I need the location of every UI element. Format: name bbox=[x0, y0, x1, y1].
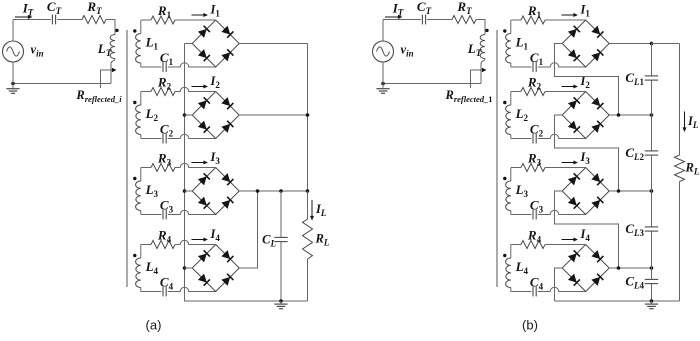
bridge rectifier b4 diode top-right bbox=[591, 250, 603, 262]
bridge rectifier b3 diode bottom-right bbox=[591, 197, 603, 209]
resistor R1 (b) bbox=[521, 16, 545, 24]
label C4 (a) bbox=[160, 275, 174, 292]
bridge rectifier a2 diamond bbox=[192, 92, 239, 139]
label C2 (a) bbox=[160, 122, 174, 139]
resistor R_T (a) bbox=[82, 16, 106, 24]
node CL bus b1 bbox=[650, 42, 654, 46]
wire C_T to R_T (a) bbox=[57, 19, 82, 21]
label v_in (a) bbox=[31, 43, 44, 59]
node CL bus b2 bbox=[650, 113, 654, 117]
node CL bus b4 bbox=[650, 266, 654, 270]
capacitor C_L1 (b) bbox=[645, 76, 658, 80]
wire C1 to bridge with hop (b) bbox=[538, 63, 586, 67]
wire C_L branch bottom (a) bbox=[280, 242, 282, 301]
bridge rectifier b4 diode left-bottom bbox=[568, 274, 580, 286]
bridge rectifier a3 diode top-right bbox=[221, 173, 233, 185]
arrow I3 (b) bbox=[562, 161, 579, 165]
resistor R_T (b) bbox=[452, 16, 476, 24]
label R_T (b) bbox=[456, 0, 472, 16]
bridge rectifier b3 diamond bbox=[562, 168, 609, 215]
label I_T (b) bbox=[392, 0, 404, 17]
node ground rail (a) bbox=[279, 299, 283, 303]
top rail to R_L (b) bbox=[652, 43, 680, 45]
bridge rectifier a4 diode top-right bbox=[221, 250, 233, 262]
label I1 (a) bbox=[210, 3, 221, 19]
wire L2 bottom to C2 (a) bbox=[141, 138, 162, 140]
wire C4 to bridge with hop (b) bbox=[538, 287, 586, 291]
node bus-bridge a2 left bbox=[183, 113, 187, 117]
capacitor C1 (b) bbox=[533, 62, 536, 72]
arrow R_reflected (a) bbox=[101, 68, 117, 88]
node bus-bridge a3 left bbox=[183, 189, 187, 193]
wire R_T to corner (a) bbox=[106, 20, 115, 35]
label I4 (a) bbox=[210, 227, 221, 243]
wire L4 top (a) bbox=[141, 244, 151, 246]
arrow I2 (b) bbox=[562, 85, 579, 89]
resistor R3 (a) bbox=[151, 164, 175, 172]
arrow I_T (b) bbox=[385, 15, 403, 19]
label I_L (a) bbox=[315, 202, 327, 218]
wire bridge a4 left to bus bbox=[185, 267, 193, 269]
label I3 (a) bbox=[210, 150, 221, 166]
wire L3 bottom to C3 (b) bbox=[511, 214, 532, 216]
bridge rectifier b2 diode top-right bbox=[591, 97, 603, 109]
bottom rail (b) bbox=[555, 300, 680, 302]
bridge rectifier a4 diode bottom-right bbox=[221, 274, 233, 286]
wire L3 top (a) bbox=[141, 167, 151, 169]
label R_L (a) bbox=[315, 232, 330, 248]
label R_reflected (b) bbox=[444, 88, 492, 104]
node bus-bridge a4 left bbox=[183, 266, 187, 270]
label C3 (a) bbox=[160, 198, 174, 215]
wire bridge a2 right to right bus bbox=[239, 114, 307, 116]
voltage source v_in (a) bbox=[3, 41, 24, 62]
wire C1 to bridge with hop (a) bbox=[168, 63, 216, 67]
label R_L (b) bbox=[685, 161, 700, 177]
polarity dot L3 (a) bbox=[133, 177, 136, 180]
capacitor C_L3 (b) bbox=[645, 227, 658, 231]
bridge rectifier b4 diode bottom-right bbox=[591, 274, 603, 286]
inductor L2 (a) bbox=[136, 92, 141, 139]
wire R2 to bridge with hop (a) bbox=[175, 87, 216, 91]
wire R4 to bridge (b) bbox=[545, 244, 586, 246]
polarity dot L4 (a) bbox=[133, 254, 136, 257]
polarity dot L_T (b) bbox=[485, 29, 488, 32]
wire R1 to bridge (b) bbox=[545, 19, 586, 21]
bridge rectifier b1 diamond bbox=[562, 20, 609, 67]
polarity dot L1 (a) bbox=[133, 29, 136, 32]
bridge rectifier a3 diode left-bottom bbox=[198, 197, 210, 209]
bridge rectifier b2 diode left-top bbox=[568, 97, 580, 109]
wire source bottom (b) bbox=[382, 62, 384, 84]
R_L bus bottom (b) bbox=[679, 182, 681, 302]
label C3 (b) bbox=[530, 198, 544, 215]
arrow I4 (a) bbox=[192, 238, 209, 242]
label L3 (b) bbox=[515, 182, 529, 199]
label I4 (b) bbox=[580, 227, 591, 243]
bridge rectifier b3 diode left-bottom bbox=[568, 197, 580, 209]
wire L1 bottom to C1 (a) bbox=[141, 66, 162, 68]
svg-text:(a): (a) bbox=[146, 318, 162, 333]
wire bridge b2 right rail bbox=[609, 114, 651, 116]
ground RX (a) bbox=[274, 301, 287, 309]
capacitor C2 (a) bbox=[163, 134, 166, 144]
node source bottom (b) bbox=[381, 82, 385, 86]
label C_T (b) bbox=[417, 0, 432, 16]
wire bridge a2 left to bus bbox=[185, 114, 193, 116]
label C_T (a) bbox=[47, 0, 62, 16]
wire top to C_T (a) bbox=[13, 19, 51, 21]
wire R2 to bridge (b) bbox=[545, 91, 586, 93]
wire L3 bottom to C3 (a) bbox=[141, 214, 162, 216]
wire L1 bottom to C1 (b) bbox=[511, 66, 532, 68]
bridge rectifier a2 diode left-bottom bbox=[198, 121, 210, 133]
capacitor C3 (a) bbox=[163, 210, 166, 220]
wire source bottom (a) bbox=[12, 62, 14, 84]
polarity dot L1 (b) bbox=[503, 29, 506, 32]
bridge rectifier b2 diamond bbox=[562, 92, 609, 139]
inductor L3 (a) bbox=[136, 168, 141, 215]
label I2 (b) bbox=[580, 74, 591, 90]
wire L_T down with jog (a) bbox=[111, 59, 115, 84]
label R4 (b) bbox=[527, 228, 542, 245]
output rail (a) bbox=[239, 190, 307, 192]
label C_L2 (b) bbox=[625, 145, 644, 162]
label L_T (a) bbox=[97, 41, 113, 59]
node source bottom (a) bbox=[11, 82, 15, 86]
wire R4 to bridge with hop (a) bbox=[175, 240, 216, 244]
wire C2 to bridge with hop (b) bbox=[538, 134, 586, 138]
label R1 (a) bbox=[157, 3, 172, 20]
wire L4 top (b) bbox=[511, 244, 521, 246]
capacitor C_T (a) bbox=[52, 15, 55, 25]
bridge rectifier a1 diode bottom-right bbox=[221, 49, 233, 61]
voltage source v_in (b) bbox=[373, 41, 394, 62]
label R_reflected (a) bbox=[75, 88, 122, 104]
wire R_L top (a) bbox=[307, 191, 309, 219]
bridge rectifier a1 diode top-right bbox=[221, 26, 233, 38]
label L2 (a) bbox=[145, 106, 159, 123]
wire bottom rail (b) bbox=[383, 83, 481, 85]
node right bus a2 bbox=[306, 113, 310, 117]
label R1 (b) bbox=[527, 3, 542, 20]
label C_L4 (b) bbox=[625, 274, 644, 291]
label C1 (b) bbox=[530, 50, 544, 67]
wire R_L bottom (a) bbox=[307, 259, 309, 301]
polarity dot L2 (a) bbox=[133, 101, 136, 104]
right DC bus (a) bbox=[307, 44, 309, 192]
label v_in (b) bbox=[401, 43, 414, 59]
node loop join b2 bbox=[617, 113, 621, 117]
wire bridge b1 left loop bbox=[555, 44, 619, 116]
arrow R_reflected (b) bbox=[471, 68, 487, 88]
wire C3 to bridge with hop (a) bbox=[168, 210, 216, 214]
bridge rectifier a2 diode bottom-right bbox=[221, 121, 233, 133]
wire C4 to bridge with hop (a) bbox=[168, 287, 216, 291]
bridge rectifier a1 diode left-top bbox=[198, 26, 210, 38]
label I3 (b) bbox=[580, 150, 591, 166]
bridge rectifier b2 diode bottom-right bbox=[591, 121, 603, 133]
label I_L (b) bbox=[687, 114, 699, 130]
label L2 (b) bbox=[515, 106, 529, 123]
node ground rail (b) bbox=[650, 299, 654, 303]
wire bridge b3 left loop bbox=[555, 191, 619, 268]
label R_T (a) bbox=[86, 0, 102, 16]
label I1 (b) bbox=[580, 3, 591, 19]
node rail riser a4 bbox=[256, 189, 260, 193]
capacitor C_T (b) bbox=[422, 15, 425, 25]
ground TX (b) bbox=[376, 84, 389, 94]
label L1 (b) bbox=[515, 35, 529, 52]
arrow I_T (a) bbox=[15, 15, 33, 19]
wire bridge b1 right rail bbox=[609, 43, 651, 45]
resistor R2 (a) bbox=[151, 88, 175, 96]
inductor L1 (a) bbox=[136, 20, 141, 67]
arrow I2 (a) bbox=[192, 85, 209, 89]
bridge rectifier a2 diode top-right bbox=[221, 97, 233, 109]
inductor L_T (b) bbox=[480, 35, 485, 59]
wire source top (a) bbox=[12, 20, 14, 42]
arrow I_L (b) bbox=[683, 112, 687, 133]
wire L1 top (a) bbox=[141, 19, 151, 21]
wire L2 top (b) bbox=[511, 91, 521, 93]
label C_L1 (b) bbox=[625, 70, 644, 87]
wire bridge a1 left to bus bbox=[185, 43, 193, 45]
resistor R2 (b) bbox=[521, 88, 545, 96]
resistor R_L (b) bbox=[675, 155, 685, 182]
wire bridge a4 right riser bbox=[239, 191, 257, 268]
CL bus segment 5 (b) bbox=[651, 284, 653, 301]
bridge rectifier b2 diode left-bottom bbox=[568, 121, 580, 133]
label I2 (a) bbox=[210, 74, 221, 90]
arrow I4 (b) bbox=[562, 238, 579, 242]
polarity dot L_T (a) bbox=[115, 29, 118, 32]
wire L4 bottom to C4 (a) bbox=[141, 291, 162, 293]
bridge rectifier a3 diode left-top bbox=[198, 173, 210, 185]
wire bridge a3 left to bus bbox=[185, 190, 193, 192]
wire bridge b3 right rail bbox=[609, 190, 651, 192]
wire R3 to bridge (b) bbox=[545, 167, 586, 169]
label R4 (a) bbox=[157, 228, 172, 245]
bridge rectifier b1 diode top-right bbox=[591, 26, 603, 38]
ground TX (a) bbox=[6, 84, 19, 94]
wire bridge b2 left loop bbox=[555, 115, 619, 191]
svg-text:(b): (b) bbox=[522, 318, 538, 333]
bridge rectifier a1 diode left-bottom bbox=[198, 49, 210, 61]
inductor L4 (a) bbox=[136, 245, 141, 292]
bridge rectifier b1 diode left-bottom bbox=[568, 49, 580, 61]
capacitor C1 (a) bbox=[163, 62, 166, 72]
wire C_T to R_T (b) bbox=[427, 19, 452, 21]
bridge rectifier b1 diode bottom-right bbox=[591, 49, 603, 61]
wire source top (b) bbox=[382, 20, 384, 42]
label L3 (a) bbox=[145, 182, 159, 199]
CL bus segment 4 (b) bbox=[651, 231, 653, 279]
wire top to C_T (b) bbox=[383, 19, 421, 21]
wire L2 bottom to C2 (b) bbox=[511, 138, 532, 140]
resistor R4 (b) bbox=[521, 241, 545, 249]
ground RX (b) bbox=[645, 301, 658, 309]
arrow I3 (a) bbox=[192, 161, 209, 165]
capacitor C2 (b) bbox=[533, 134, 536, 144]
wire L1 top (b) bbox=[511, 19, 521, 21]
wire R1 to bridge (a) bbox=[175, 19, 216, 21]
capacitor C4 (a) bbox=[163, 287, 166, 297]
bridge rectifier b3 diode top-right bbox=[591, 173, 603, 185]
wire L3 top (b) bbox=[511, 167, 521, 169]
bridge rectifier b4 diamond bbox=[562, 245, 609, 292]
CL bus segment 1 (b) bbox=[651, 44, 653, 76]
coupling bar (b) bbox=[496, 30, 498, 287]
label C4 (b) bbox=[530, 275, 544, 292]
capacitor C3 (b) bbox=[533, 210, 536, 220]
label I_T (a) bbox=[22, 0, 34, 17]
CL bus segment 3 (b) bbox=[651, 155, 653, 227]
inductor L1 (b) bbox=[506, 20, 511, 67]
label R2 (b) bbox=[527, 75, 542, 92]
polarity dot L3 (b) bbox=[503, 177, 506, 180]
wire R3 to bridge with hop (a) bbox=[175, 163, 216, 167]
resistor R1 (a) bbox=[151, 16, 175, 24]
label C_L (a) bbox=[262, 233, 276, 249]
label C_L3 (b) bbox=[625, 221, 644, 238]
node rail C_L top bbox=[279, 189, 283, 193]
arrow I1 (b) bbox=[562, 13, 579, 17]
polarity dot L4 (b) bbox=[503, 254, 506, 257]
left DC bus (a) bbox=[185, 44, 308, 302]
wire L_T down with jog (b) bbox=[481, 59, 485, 84]
wire L2 top (a) bbox=[141, 91, 151, 93]
wire bridge b4 left loop bbox=[555, 268, 563, 301]
wire C2 to bridge with hop (a) bbox=[168, 134, 216, 138]
bridge rectifier a4 diamond bbox=[192, 245, 239, 292]
label L1 (a) bbox=[145, 35, 159, 52]
bridge rectifier a3 diamond bbox=[192, 168, 239, 215]
bridge rectifier a1 diamond bbox=[192, 20, 239, 67]
node loop join b4 bbox=[617, 266, 621, 270]
polarity dot L2 (b) bbox=[503, 101, 506, 104]
wire C3 to bridge with hop (b) bbox=[538, 210, 586, 214]
resistor R4 (a) bbox=[151, 241, 175, 249]
bridge rectifier b1 diode left-top bbox=[568, 26, 580, 38]
arrow I_L (a) bbox=[310, 200, 314, 221]
node rail R_L top bbox=[306, 189, 310, 193]
label L4 (b) bbox=[515, 259, 529, 276]
bridge rectifier a2 diode left-top bbox=[198, 97, 210, 109]
capacitor C_L2 (b) bbox=[645, 151, 658, 155]
bridge rectifier a3 diode bottom-right bbox=[221, 197, 233, 209]
inductor L2 (b) bbox=[506, 92, 511, 139]
label R3 (a) bbox=[157, 151, 172, 168]
label R2 (a) bbox=[157, 75, 172, 92]
bridge rectifier b4 diode left-top bbox=[568, 250, 580, 262]
label R3 (b) bbox=[527, 151, 542, 168]
capacitor C_L4 (b) bbox=[645, 279, 658, 283]
caption (b) bbox=[522, 318, 538, 333]
label C1 (a) bbox=[160, 50, 174, 67]
coupling bar (a) bbox=[126, 30, 128, 287]
node loop join b3 bbox=[617, 189, 621, 193]
bridge rectifier a4 diode left-top bbox=[198, 250, 210, 262]
resistor R3 (b) bbox=[521, 164, 545, 172]
wire C_L branch top (a) bbox=[280, 191, 282, 237]
node CL bus b3 bbox=[650, 189, 654, 193]
bridge rectifier a4 diode left-bottom bbox=[198, 274, 210, 286]
wire R_T to corner (b) bbox=[476, 20, 485, 35]
label C2 (b) bbox=[530, 122, 544, 139]
CL bus segment 2 (b) bbox=[651, 80, 653, 151]
resistor R_L (a) bbox=[303, 219, 313, 259]
bridge rectifier b3 diode left-top bbox=[568, 173, 580, 185]
wire bridge b4 right rail bbox=[609, 267, 651, 269]
label L_T (b) bbox=[467, 41, 483, 59]
wire bridge a1 right to right bus bbox=[239, 43, 307, 45]
inductor L4 (b) bbox=[506, 245, 511, 292]
capacitor C_L (a) bbox=[274, 237, 287, 241]
wire bottom rail (a) bbox=[13, 83, 111, 85]
label L4 (a) bbox=[145, 259, 159, 276]
inductor L3 (b) bbox=[506, 168, 511, 215]
R_L bus top (b) bbox=[679, 44, 681, 156]
capacitor C4 (b) bbox=[533, 287, 536, 297]
arrow I1 (a) bbox=[192, 13, 209, 17]
wire L4 bottom to C4 (b) bbox=[511, 291, 532, 293]
caption (a) bbox=[146, 318, 162, 333]
inductor L_T (a) bbox=[110, 35, 115, 59]
